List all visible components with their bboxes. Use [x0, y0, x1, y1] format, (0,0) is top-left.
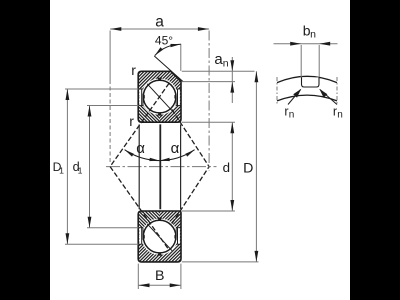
dimension D: line: [255, 71, 257, 262]
contact angle arrow far right: [185, 150, 194, 157]
dimension d: top arrow: [230, 122, 234, 133]
dimension 45deg: arrow left: [155, 47, 163, 55]
extension line shoulder d1 (top): [87, 105, 139, 107]
dimension d: line: [231, 122, 233, 211]
extension line outer surface (top): [182, 70, 255, 72]
dimension d1: line: [89, 106, 91, 228]
extension line slot depth: [182, 81, 235, 83]
detail view: left break line: [276, 77, 278, 104]
dimension a: left arrow: [110, 27, 121, 31]
dimension B: right extension line: [180, 264, 182, 289]
dimension D1: line: [66, 89, 68, 244]
inner ring split line: [159, 124, 161, 209]
raceway cusp bottom (upper section): [157, 112, 162, 116]
contact line (dashed, left pressure center): [110, 83, 169, 250]
shoulder gap left (upper section): [138, 89, 144, 106]
svg-text:n: n: [310, 29, 316, 41]
dimension D1: label: [53, 160, 64, 175]
contact angle arc right: [160, 150, 195, 161]
outer ring upper section (hatched): [138, 71, 181, 122]
contact angle arc left: [125, 150, 160, 161]
raceway cusp top (upper section): [157, 78, 162, 82]
ball (lower section): [143, 220, 176, 253]
dimension a_n: label: [214, 51, 228, 69]
extension line shoulder D1 (top): [65, 88, 139, 90]
detail view: outer surface arc: [277, 76, 337, 82]
dimension d1: label: [73, 160, 83, 175]
detail view: right break line: [336, 77, 338, 104]
dimension 45deg: arc: [155, 44, 181, 55]
dimension d: bottom arrow: [230, 200, 234, 211]
svg-text:1: 1: [59, 166, 64, 176]
extension line shoulder d1 (bottom): [87, 227, 139, 229]
dimension 45deg: vertical reference line: [180, 44, 182, 71]
dimension 45deg: chamfer construction line: [154, 56, 183, 82]
extension line outer surface (bottom): [182, 261, 259, 263]
dimension b_n: left extension line: [300, 45, 302, 77]
shoulder wedge right (lower section): [174, 234, 176, 241]
dimension r_n left: leader: [288, 90, 301, 105]
svg-text:D: D: [243, 160, 253, 176]
upper section outline with 45deg slot chamfer: [138, 71, 181, 122]
extension line bore (bottom): [182, 210, 235, 212]
raceway cusp top (lower section): [157, 218, 162, 222]
dimension a: left extension line: [109, 31, 111, 165]
contact line (dashed, right pressure center): [172, 110, 209, 224]
dimension r_n right: arrow: [319, 89, 327, 98]
dimension 45deg: arrow right: [171, 44, 181, 47]
bore edge line right: [180, 124, 182, 209]
svg-text:α: α: [136, 140, 145, 157]
dimension a_n: upper arrow: [230, 60, 234, 71]
dimension B: left extension line: [137, 264, 139, 289]
svg-text:B: B: [155, 268, 164, 284]
bearing axis centerline: [106, 166, 217, 168]
extension line bore (top): [182, 121, 235, 123]
dimension r_n left: arrow: [293, 89, 301, 98]
shoulder gap right (lower section): [175, 228, 181, 245]
dimension D1: top arrow: [66, 89, 70, 100]
contact angle arrow far left: [125, 150, 134, 157]
svg-text:n: n: [337, 110, 343, 121]
svg-text:d: d: [223, 160, 230, 175]
svg-text:α: α: [171, 140, 180, 157]
dimension r_n right: leader: [320, 90, 337, 105]
dimension b_n: left arrow: [290, 42, 301, 46]
dimension b_n: right arrow: [319, 42, 330, 46]
dimension d1: top arrow: [88, 106, 92, 117]
svg-text:n: n: [223, 58, 229, 70]
ball cross line (lower section): [147, 224, 172, 251]
dimension b_n: right extension line: [318, 45, 320, 77]
svg-text:a: a: [155, 14, 164, 31]
dimension a_n: dimension line: [231, 57, 233, 103]
dimension B: left arrow: [139, 283, 150, 287]
dimension r_n left: label: [284, 104, 294, 120]
bore edge line left: [138, 124, 140, 209]
shoulder wedge left (lower section): [143, 234, 145, 241]
detail view: locating slot notch: [302, 77, 320, 87]
ball cross line (upper section): [147, 84, 172, 111]
ball (upper section): [143, 80, 176, 113]
svg-text:r: r: [131, 62, 136, 78]
dimension a_n: lower arrow: [230, 82, 234, 93]
dimension D: top arrow: [255, 71, 259, 82]
dimension d1: bottom arrow: [88, 217, 92, 228]
raceway cusp bottom (lower section): [157, 252, 162, 256]
lower section outline: [138, 211, 181, 262]
dimension B: right arrow: [170, 283, 181, 287]
contact angle arrow mid right: [160, 158, 170, 161]
dimension b_n: label: [303, 22, 316, 40]
shoulder gap right (upper section): [175, 89, 181, 106]
drawing sheet background: [50, 0, 350, 300]
shoulder wedge left (upper section): [143, 94, 145, 101]
shoulder gap left (lower section): [138, 228, 144, 245]
dimension a: line: [110, 28, 209, 30]
dimension a: right extension centerline: [208, 31, 210, 172]
dimension a: right arrow: [198, 27, 209, 31]
dimension D: bottom arrow: [255, 251, 259, 262]
dimension B: line: [138, 284, 181, 286]
inner ring lower section (hatched): [138, 211, 181, 262]
dimension b_n: line: [274, 43, 338, 45]
shoulder wedge right (upper section): [174, 94, 176, 101]
dimension D1: bottom arrow: [66, 233, 70, 244]
svg-text:1: 1: [78, 166, 83, 176]
contact angle arrow mid left: [149, 158, 159, 161]
detail view: chamfer edge arc: [277, 95, 337, 101]
svg-text:r: r: [129, 113, 134, 129]
extension line shoulder D1 (bottom): [65, 243, 139, 245]
dimension r_n right: label: [333, 104, 343, 120]
svg-text:n: n: [289, 110, 295, 121]
